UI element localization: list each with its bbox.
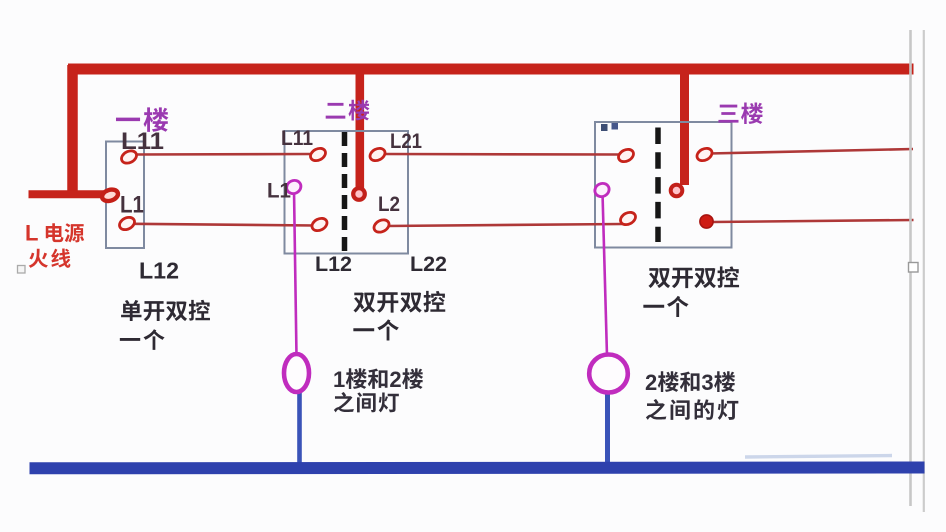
terminal S2.L1 (lamp feed)	[284, 178, 303, 196]
wire: traveller S1.L11 to S2.L11	[134, 153, 313, 156]
svg-text:2: 2	[389, 367, 401, 392]
svg-text:L22: L22	[410, 252, 447, 276]
handle: selection square left margin	[18, 266, 26, 274]
wire: traveller S1.L12 to S2.L12	[132, 224, 315, 226]
svg-text:L12: L12	[139, 258, 179, 284]
svg-text:1: 1	[333, 367, 345, 392]
lamp LP2 (between floor 2 and 3)	[589, 355, 628, 393]
svg-text:L12: L12	[315, 252, 352, 276]
switch box S3 (double-gang two-way, floor 3)	[595, 122, 732, 248]
wire: live drop to switch S1	[67, 65, 78, 197]
svg-text:L11: L11	[281, 127, 313, 150]
frame: right vertical line B	[923, 30, 925, 512]
label: 火线	[29, 249, 71, 268]
wire: traveller S2.L22 to S3.L12	[386, 224, 623, 226]
label: lamp LP2 2楼和3楼 之间的灯	[645, 370, 735, 395]
label: S3 type 双开双控 一个	[648, 266, 739, 288]
terminal S1.L12	[117, 215, 136, 232]
svg-text:3: 3	[701, 370, 713, 395]
label: floor 2 heading 二楼	[326, 100, 370, 121]
svg-text:L2: L2	[378, 193, 400, 216]
frame: right vertical line A	[909, 30, 912, 506]
wire: lamp LP1 to neutral bus	[297, 391, 302, 466]
divider (dashed) inside S2	[342, 132, 348, 255]
svg-text:L1: L1	[120, 192, 144, 219]
label: S2 type 双开双控 一个	[353, 291, 445, 313]
switch box S1 (single-gang two-way, floor 1)	[106, 142, 144, 249]
lamp LP1 (between floor 1 and 2)	[284, 354, 309, 392]
svg-text:L1: L1	[267, 180, 291, 203]
terminal S3.L1 (lamp feed)	[593, 181, 612, 199]
terminal S2.L11	[308, 146, 327, 163]
wire: switched line S2.L1 to lamp LP1	[294, 190, 297, 356]
terminal S2 common (live, filled)	[353, 188, 365, 200]
artifact: faint light-blue smear above neutral bus	[745, 456, 892, 458]
wire: traveller S2.L21 to S3.L11	[382, 153, 621, 156]
svg-text:L11: L11	[121, 128, 164, 155]
label: S1 type 单开双控 一个	[121, 300, 210, 321]
terminal S2.L12	[310, 216, 329, 233]
terminal S3.L12	[618, 210, 637, 227]
wire: traveller S3.L21 to right rail	[709, 149, 913, 154]
wire: switched line S3.L1 to lamp LP2	[603, 193, 608, 356]
marker: tiny blue squares in S3 corner	[601, 123, 618, 131]
handle: selection square on right line	[909, 263, 919, 273]
terminal S1.L1 (common, fed)	[101, 188, 120, 203]
svg-text:L21: L21	[390, 130, 422, 153]
terminal S3.L22 (filled)	[700, 215, 713, 228]
wire: traveller S3.L22 to right rail	[712, 220, 914, 222]
wire: live L bus (thick red top)	[68, 64, 914, 75]
divider (dashed) inside S3	[655, 128, 661, 243]
terminal S1.L11	[119, 148, 138, 165]
label: L 电源 火线 (live feed)	[25, 221, 38, 246]
wire: live stub into S1 terminal L1	[29, 190, 105, 198]
terminal S2.L21	[368, 146, 387, 163]
wire: live drop to switch S3 common	[680, 70, 689, 185]
svg-text:2: 2	[645, 370, 657, 395]
label: floor 3 heading 三楼	[718, 102, 763, 124]
wire: live drop to switch S2 common	[355, 70, 364, 189]
terminal S2.L22	[372, 217, 391, 234]
svg-text:L: L	[25, 221, 38, 246]
wire: neutral N bus (thick blue bottom)	[30, 462, 925, 475]
terminal S3 common (live, filled)	[671, 185, 683, 197]
label: floor 1 heading 一楼	[116, 107, 168, 131]
terminal S3.L21	[695, 146, 714, 163]
label: lamp LP1 1楼和2楼 之间灯	[333, 367, 423, 392]
wire: lamp LP2 to neutral bus	[605, 392, 610, 466]
terminal S3.L11	[616, 147, 635, 164]
switch box S2 (double-gang two-way, floor 2)	[285, 131, 409, 254]
